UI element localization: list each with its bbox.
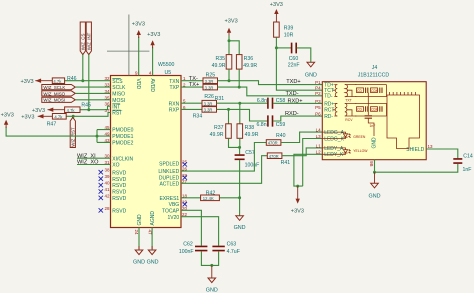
resistor R42 xyxy=(201,190,220,201)
svg-text:CD: CD xyxy=(357,89,362,93)
junction R42/gnd line xyxy=(238,196,241,199)
svg-text:+3V3: +3V3 xyxy=(20,79,33,85)
svg-text:GREEN: GREEN xyxy=(353,135,366,139)
svg-text:GND: GND xyxy=(369,194,381,200)
ground (jack shield) xyxy=(369,172,381,199)
resistor R45 xyxy=(65,103,91,114)
svg-text:+3V3: +3V3 xyxy=(1,113,14,119)
wire C60 to gnd xyxy=(297,48,311,62)
wire VDD feed xyxy=(138,37,140,76)
power +3V3 left arrow (INT pullup) xyxy=(32,108,65,115)
capacitor C62 xyxy=(179,242,208,255)
svg-text:WIZ_INT: WIZ_INT xyxy=(86,32,91,50)
svg-text:GND: GND xyxy=(147,260,159,266)
wire RST row with jog xyxy=(66,113,110,117)
svg-text:GND: GND xyxy=(137,214,143,226)
svg-text:100nF: 100nF xyxy=(245,162,260,168)
svg-text:RSVD: RSVD xyxy=(112,196,126,202)
svg-text:RCV: RCV xyxy=(345,118,353,122)
svg-text:SCLK: SCLK xyxy=(112,85,126,91)
svg-text:49.9R: 49.9R xyxy=(212,63,226,69)
wire PMODE net xyxy=(6,127,110,143)
svg-text:C57: C57 xyxy=(245,150,255,156)
svg-text:R41: R41 xyxy=(281,160,291,166)
svg-text:L2: L2 xyxy=(316,150,322,155)
RX termination network xyxy=(355,103,387,116)
svg-text:R42: R42 xyxy=(206,190,216,196)
wire TX+ to jack TD- xyxy=(218,87,323,96)
power +3V3 arrow (R39) xyxy=(270,2,283,22)
svg-text:R39: R39 xyxy=(284,26,294,32)
no-connect RSVD pins xyxy=(99,170,103,213)
svg-text:RSVD: RSVD xyxy=(112,209,126,215)
power +3V3 left arrow (SCS pullup) xyxy=(20,79,52,86)
svg-text:6.8n: 6.8n xyxy=(257,98,267,104)
jack pin names xyxy=(324,83,424,159)
svg-text:9B: 9B xyxy=(369,161,374,167)
capacitor C58 xyxy=(257,98,286,109)
ground (chip GND) xyxy=(133,246,145,266)
svg-text:39: 39 xyxy=(104,174,110,179)
wire ACTLED to R41 xyxy=(181,156,267,184)
resistor R37 xyxy=(210,124,232,139)
resistor R39 xyxy=(274,22,294,38)
svg-text:LEDY_A: LEDY_A xyxy=(324,146,344,152)
power +3V3 arrow (AVDD) xyxy=(147,32,160,48)
svg-text:41: 41 xyxy=(104,187,110,192)
svg-text:3.3R: 3.3R xyxy=(205,79,214,84)
svg-text:470R: 470R xyxy=(268,141,278,146)
pin names top/bottom vertical xyxy=(135,79,156,226)
svg-text:49.9R: 49.9R xyxy=(243,63,257,69)
svg-text:LINKLED: LINKLED xyxy=(158,169,179,175)
resistor R34 xyxy=(193,107,217,120)
svg-text:RXD-: RXD- xyxy=(285,111,299,117)
svg-text:1nF: 1nF xyxy=(463,167,472,173)
junction jack gnd xyxy=(373,171,376,174)
transformer TX secondary coil xyxy=(345,85,357,97)
svg-text:+3V3: +3V3 xyxy=(291,208,304,214)
svg-text:470R: 470R xyxy=(269,154,279,159)
ic U5 body xyxy=(111,76,182,228)
jack pin numbers xyxy=(315,80,433,167)
svg-text:L3: L3 xyxy=(316,134,322,139)
svg-text:R25: R25 xyxy=(206,73,216,79)
wire RXN pin to R31 xyxy=(181,102,202,104)
svg-text:R47: R47 xyxy=(47,121,57,127)
wire SCLK row xyxy=(75,86,110,88)
power +3V3 left arrow (RST pullup) xyxy=(21,114,52,120)
wire thin supply rail horizontal xyxy=(107,50,149,52)
svg-text:XI/CLKIN: XI/CLKIN xyxy=(112,156,133,162)
wire SHIELD to C14 xyxy=(426,149,458,158)
hier label WIZ_MOSI xyxy=(42,97,76,103)
hier label WIZ_RST (vertical, hangs from RST row) xyxy=(70,117,75,147)
svg-text:U5: U5 xyxy=(165,70,172,76)
svg-text:L1: L1 xyxy=(316,143,322,148)
svg-text:C59: C59 xyxy=(276,122,286,128)
svg-text:+3V3: +3V3 xyxy=(225,18,238,24)
svg-text:RSVD: RSVD xyxy=(112,183,126,189)
svg-text:R45: R45 xyxy=(81,103,91,109)
svg-text:22nF: 22nF xyxy=(288,63,300,69)
pin numbers right xyxy=(182,76,188,217)
svg-text:R36: R36 xyxy=(244,56,254,62)
junction WIZ_INT/INT xyxy=(87,108,90,111)
svg-text:R31: R31 xyxy=(215,96,225,102)
svg-text:AVDD: AVDD xyxy=(149,79,155,93)
wire C59 to jack RD- xyxy=(273,116,322,121)
wire AGND pin down xyxy=(151,228,153,250)
svg-text:MISO: MISO xyxy=(112,92,125,98)
wire WIZ_INT drop xyxy=(88,55,90,110)
resistor R46 xyxy=(52,76,76,84)
svg-text:XO: XO xyxy=(112,163,119,169)
svg-text:28: 28 xyxy=(104,206,110,211)
ground (C57) xyxy=(234,216,246,231)
svg-text:C14: C14 xyxy=(463,153,473,159)
svg-text:TXD+: TXD+ xyxy=(286,79,300,85)
svg-text:GND: GND xyxy=(305,72,317,78)
svg-text:EXRES1: EXRES1 xyxy=(159,196,179,202)
wire LEDG_K return xyxy=(303,139,323,187)
svg-text:4.7k: 4.7k xyxy=(53,79,62,84)
power +3V3 up arrow (PMODE) xyxy=(1,113,14,128)
svg-text:RD-: RD- xyxy=(324,114,333,120)
svg-text:TXP: TXP xyxy=(169,85,179,91)
wire C14 bottom return xyxy=(375,164,458,173)
svg-text:RXN: RXN xyxy=(169,101,180,107)
svg-text:SPDLED: SPDLED xyxy=(159,162,179,168)
capacitor C57 xyxy=(235,150,260,168)
wire R41 to LEDY_A xyxy=(282,148,322,156)
svg-text:R26: R26 xyxy=(204,94,214,100)
wire TOCAP to C62 xyxy=(181,210,201,245)
svg-text:L4: L4 xyxy=(316,128,322,133)
svg-text:13: 13 xyxy=(428,144,434,149)
resistor R26 xyxy=(203,84,218,100)
svg-text:TD-: TD- xyxy=(324,94,333,100)
wire C57 bottom to gnd xyxy=(239,160,241,216)
svg-text:TX+: TX+ xyxy=(189,82,199,88)
led GREEN xyxy=(322,132,351,138)
svg-text:GND: GND xyxy=(234,225,246,231)
svg-text:+3V3: +3V3 xyxy=(32,108,45,114)
svg-text:42: 42 xyxy=(104,193,110,198)
svg-text:RSVD: RSVD xyxy=(112,170,126,176)
svg-text:R46: R46 xyxy=(67,76,77,82)
wire R39 bottom / TCT feed xyxy=(276,37,322,90)
svg-text:MOSI: MOSI xyxy=(112,98,125,104)
svg-text:RSVD: RSVD xyxy=(112,190,126,196)
junction C57 top xyxy=(238,146,241,149)
junction R35/R36 top xyxy=(228,39,231,42)
ground (C62/C63) xyxy=(206,265,218,293)
junction R47/WIZ_RST xyxy=(72,115,75,118)
wire GND pin down xyxy=(138,228,140,250)
wire C57 top stub xyxy=(239,147,241,154)
svg-text:LEDG_K: LEDG_K xyxy=(324,136,344,142)
svg-text:WIZ_MOSI: WIZ_MOSI xyxy=(43,98,65,103)
pin names right column xyxy=(158,79,180,221)
junction PMODE bracket xyxy=(96,135,99,138)
svg-text:GND: GND xyxy=(206,288,218,293)
svg-text:3.3R: 3.3R xyxy=(204,108,213,113)
wire +3V3 to R35/R36 tops xyxy=(229,36,239,55)
svg-text:INT: INT xyxy=(112,104,120,110)
svg-text:W5500: W5500 xyxy=(158,62,175,68)
svg-text:J4: J4 xyxy=(372,65,378,71)
ground (C60) xyxy=(305,62,317,78)
svg-text:P2: P2 xyxy=(315,91,321,96)
ground (chip AGND) xyxy=(147,246,159,266)
wire TXP pin to R26 xyxy=(181,86,203,88)
svg-text:C63: C63 xyxy=(227,242,237,248)
svg-text:TXD-: TXD- xyxy=(286,91,299,97)
wire R38 hang xyxy=(239,103,241,124)
svg-text:TXN: TXN xyxy=(169,79,179,85)
svg-text:4.7k: 4.7k xyxy=(54,115,63,120)
power +3V3 arrow (TX pullups) xyxy=(225,18,238,37)
hier label WIZ_INT (vertical) xyxy=(86,22,91,55)
no-connect DUPLED xyxy=(183,175,187,179)
wire R42 to gnd line xyxy=(219,197,239,199)
svg-text:TX-: TX- xyxy=(189,76,198,82)
wire XI row xyxy=(77,157,111,159)
capacitor C63 xyxy=(212,242,239,255)
no-connect SPDLED xyxy=(183,162,187,166)
svg-text:+3V3: +3V3 xyxy=(270,2,283,8)
svg-text:P4: P4 xyxy=(315,86,321,91)
svg-text:GND: GND xyxy=(133,260,145,266)
svg-text:SCS: SCS xyxy=(112,79,123,85)
wire RXP to C59 xyxy=(217,109,268,121)
wire R37 hang xyxy=(228,109,230,123)
svg-text:WIZ_MISO: WIZ_MISO xyxy=(43,91,65,96)
resistor R47 xyxy=(47,114,67,128)
transformer TX primary coil xyxy=(333,85,338,97)
svg-text:4.7k: 4.7k xyxy=(67,108,76,113)
wire R36 bottom xyxy=(238,69,240,87)
svg-text:VDD: VDD xyxy=(135,79,141,90)
wire R40 to LEDG_A xyxy=(281,132,322,142)
svg-text:LEDG_A: LEDG_A xyxy=(324,130,344,136)
pin numbers left xyxy=(104,76,110,211)
junction R38/RXN xyxy=(238,102,241,105)
svg-text:AGND: AGND xyxy=(150,211,156,226)
wire MISO row xyxy=(75,92,110,94)
wire EXRES1 to R42 xyxy=(181,197,201,199)
wire INT row with jog xyxy=(80,106,111,110)
svg-text:CDK: CDK xyxy=(371,89,379,93)
power +3V3 down arrow (LED common) xyxy=(291,186,304,214)
hier label WIZ_MISO xyxy=(42,91,76,97)
resistor R25 xyxy=(203,73,218,84)
svg-text:YELLOW: YELLOW xyxy=(353,149,368,153)
wire C58 to jack RD+ xyxy=(273,102,322,104)
transformer RX primary coil xyxy=(333,103,338,116)
junction R39/C60 xyxy=(275,46,278,49)
pin numbers top and bottom xyxy=(134,71,152,236)
svg-text:RD+: RD+ xyxy=(324,101,334,107)
svg-text:R37: R37 xyxy=(214,125,224,131)
svg-text:4.7uF: 4.7uF xyxy=(227,249,240,255)
wire WIZ_CS drop xyxy=(82,55,84,81)
pin names left column xyxy=(112,78,133,215)
resistor R38 xyxy=(237,124,259,139)
svg-text:40: 40 xyxy=(104,181,110,186)
transformer RX secondary coil xyxy=(345,103,357,116)
svg-text:3.3R: 3.3R xyxy=(204,101,213,106)
wire SCS row xyxy=(65,80,111,82)
wire R35 bottom xyxy=(228,69,230,81)
wire LEDY_K return xyxy=(294,154,322,186)
svg-text:C62: C62 xyxy=(183,242,193,248)
svg-text:P6: P6 xyxy=(315,112,321,117)
no-connect VBG xyxy=(183,202,187,206)
resistor R31 xyxy=(202,96,224,107)
junction WIZ_CS/SCS xyxy=(81,79,84,82)
resistor R35 xyxy=(212,55,232,70)
svg-text:49.9R: 49.9R xyxy=(245,132,259,138)
wire RXN to C58 xyxy=(217,102,268,104)
svg-text:38: 38 xyxy=(104,168,110,173)
svg-text:+3V3: +3V3 xyxy=(21,115,34,121)
junction R36/TX+ xyxy=(238,86,241,89)
svg-text:PMODE0: PMODE0 xyxy=(112,128,133,134)
junction caps-gnd xyxy=(210,264,213,267)
svg-text:GND: GND xyxy=(371,137,377,149)
wire thin supply rail vertical xyxy=(128,15,130,76)
resistor R41 xyxy=(267,153,290,166)
svg-text:CDK: CDK xyxy=(371,108,379,112)
svg-text:1V20: 1V20 xyxy=(168,215,180,221)
svg-text:ACTLED: ACTLED xyxy=(159,181,179,187)
svg-text:6.8n: 6.8n xyxy=(256,122,266,128)
svg-text:LEDY_K: LEDY_K xyxy=(324,152,344,158)
svg-text:10R: 10R xyxy=(284,32,294,38)
svg-text:100nF: 100nF xyxy=(179,249,194,255)
svg-text:TXT: TXT xyxy=(345,98,351,102)
svg-text:RXP: RXP xyxy=(169,108,180,114)
wire C62/C63 bottoms join xyxy=(201,251,218,265)
svg-text:1nF: 1nF xyxy=(370,124,376,128)
svg-text:TOCAP: TOCAP xyxy=(162,208,180,214)
svg-text:12.4K: 12.4K xyxy=(203,196,214,201)
wire TX- to jack TD+ xyxy=(218,81,323,85)
svg-text:P3: P3 xyxy=(315,99,321,104)
svg-text:R38: R38 xyxy=(245,125,255,131)
connector J4 body xyxy=(322,65,426,160)
svg-text:J1B1211CCD: J1B1211CCD xyxy=(358,73,390,79)
power +3V3 arrow (VDD) xyxy=(132,22,145,38)
svg-text:R40: R40 xyxy=(276,133,286,139)
svg-text:VBG: VBG xyxy=(169,202,180,208)
svg-text:WIZ_SCLK: WIZ_SCLK xyxy=(43,85,65,90)
svg-text:WIZ_RST: WIZ_RST xyxy=(70,127,75,147)
hier label WIZ_SCLK xyxy=(42,85,76,91)
resistor R36 xyxy=(236,55,257,70)
RJ45 socket drawing xyxy=(387,92,420,149)
capacitor C59 xyxy=(256,115,285,127)
resistor R40 xyxy=(266,133,285,146)
svg-text:P1: P1 xyxy=(315,80,321,85)
svg-text:49.9R: 49.9R xyxy=(210,132,224,138)
capacitor C60 xyxy=(288,43,300,69)
wire 1V20 to C63 xyxy=(181,217,219,246)
capacitor C14 xyxy=(453,153,473,173)
wire MOSI row xyxy=(75,99,110,101)
svg-text:C60: C60 xyxy=(289,56,299,62)
wire XO row xyxy=(77,164,111,166)
TX termination network xyxy=(355,85,387,97)
junction R37/RXP xyxy=(227,108,230,111)
svg-text:R35: R35 xyxy=(215,56,225,62)
svg-text:RSVD: RSVD xyxy=(112,177,126,183)
hier label WIZ_CS (vertical) xyxy=(80,22,85,55)
wire AVDD feed xyxy=(152,47,154,76)
svg-text:RST: RST xyxy=(112,111,122,117)
svg-text:RXD+: RXD+ xyxy=(288,98,303,104)
svg-text:3.3R: 3.3R xyxy=(205,85,214,90)
svg-text:+3V3: +3V3 xyxy=(147,32,160,38)
junction R35/TX- xyxy=(228,79,231,82)
svg-text:PMODE2: PMODE2 xyxy=(112,141,133,147)
wire to C60 xyxy=(276,47,291,49)
svg-text:P5: P5 xyxy=(315,105,321,110)
svg-text:PMODE1: PMODE1 xyxy=(112,134,133,140)
svg-text:RCT: RCT xyxy=(324,108,334,114)
svg-text:+3V3: +3V3 xyxy=(132,22,145,28)
internal gnd cap xyxy=(365,93,374,137)
svg-text:CD: CD xyxy=(357,108,362,112)
wire LINKLED to R40 xyxy=(181,143,266,172)
wire RXP pin to R34 xyxy=(181,108,202,110)
svg-text:R34: R34 xyxy=(193,114,203,120)
svg-text:WIZ_CS: WIZ_CS xyxy=(80,34,85,51)
junction LED returns xyxy=(296,185,299,188)
wire jack GND pin down xyxy=(374,160,376,173)
wire TXN pin to R25 xyxy=(181,80,203,82)
wire R37/R38 bottoms join xyxy=(229,138,240,147)
led YELLOW xyxy=(322,148,351,154)
